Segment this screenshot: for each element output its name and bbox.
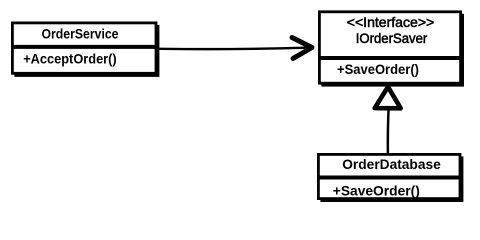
svg-text:OrderService: OrderService	[42, 26, 119, 41]
svg-text:<<Interface>>: <<Interface>>	[347, 15, 435, 30]
svg-text:+SaveOrder(): +SaveOrder()	[333, 184, 420, 199]
svg-text:IOrderSaver: IOrderSaver	[356, 31, 428, 46]
svg-text:+AcceptOrder(): +AcceptOrder()	[23, 51, 117, 66]
svg-text:OrderDatabase: OrderDatabase	[342, 157, 441, 172]
svg-text:+SaveOrder(): +SaveOrder()	[337, 62, 419, 77]
